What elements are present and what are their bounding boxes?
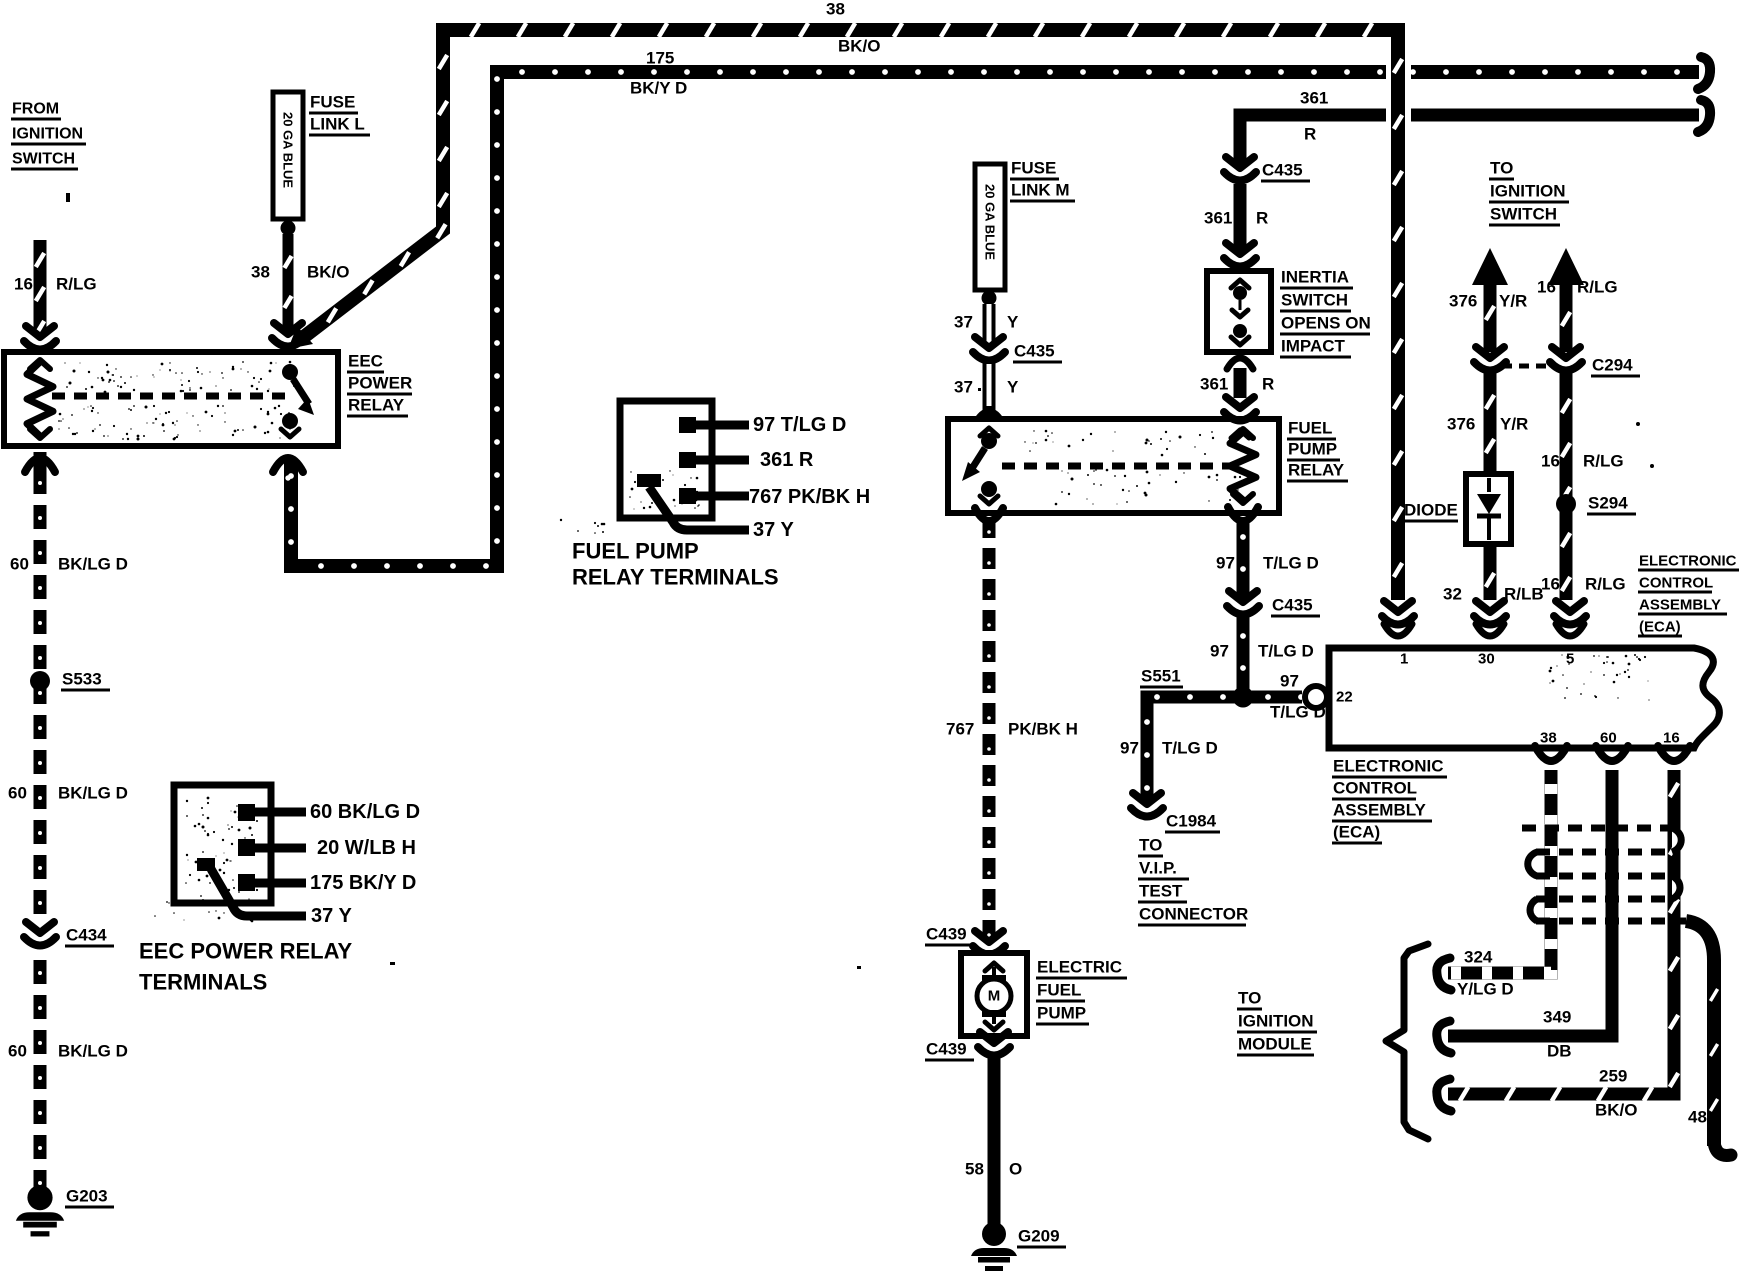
svg-text:37: 37 [954, 378, 973, 397]
svg-text:TEST: TEST [1139, 882, 1183, 901]
splice S533 [30, 671, 50, 691]
svg-text:20 GA BLUE: 20 GA BLUE [983, 184, 998, 260]
fuel pump relay dashed link [1002, 463, 1232, 470]
wire 361 R inertia to fuel pump relay [1227, 358, 1253, 369]
svg-text:PUMP: PUMP [1037, 1004, 1086, 1023]
fuse link L [273, 92, 303, 219]
svg-text:60: 60 [8, 784, 27, 803]
wire 97 to ECA pin 22 [1243, 691, 1302, 704]
connector C435 on 37 Y wire [973, 337, 1005, 361]
svg-text:TERMINALS: TERMINALS [139, 970, 267, 995]
svg-text:Y/LG D: Y/LG D [1457, 980, 1514, 999]
ECA box [1329, 648, 1719, 748]
connector C439 above pump [973, 931, 1005, 955]
wire 97 to S551 and VIP test connector [1147, 697, 1243, 800]
wire 376 Y/R with arrow to ignition switch [1472, 248, 1508, 285]
svg-text:Y: Y [1007, 313, 1019, 332]
wire 58 O to ground [988, 1056, 1001, 1224]
ECA bottom pin cups [1535, 746, 1567, 761]
svg-text:POWER: POWER [348, 374, 412, 393]
svg-text:IGNITION: IGNITION [12, 126, 83, 143]
svg-text:60 BK/LG D: 60 BK/LG D [310, 801, 420, 823]
svg-text:C439: C439 [926, 925, 967, 944]
svg-text:361 R: 361 R [760, 449, 814, 471]
fuel pump relay switch [980, 428, 998, 436]
svg-text:TO: TO [1139, 836, 1162, 855]
svg-text:CONNECTOR: CONNECTOR [1139, 905, 1248, 924]
svg-text:60: 60 [1600, 730, 1617, 747]
svg-text:FUEL: FUEL [1288, 419, 1332, 438]
svg-text:S551: S551 [1141, 667, 1181, 686]
svg-text:FUSE: FUSE [1011, 159, 1056, 178]
fuel pump relay coil [1230, 432, 1256, 500]
wire 16 R/LG with arrow to ignition switch [1548, 248, 1584, 285]
crossover hop arcs [1672, 828, 1681, 852]
connector C1984 [1131, 793, 1163, 817]
svg-text:R: R [1262, 375, 1274, 394]
svg-text:Y: Y [1007, 378, 1019, 397]
wire 361 R horizontal to ignition switch [1240, 115, 1699, 163]
FUEL PUMP RELAY TERMINALS box [620, 401, 712, 518]
svg-text:DB: DB [1547, 1042, 1572, 1061]
svg-text:C434: C434 [66, 926, 107, 945]
wire 767 PK/BK H dashed to fuel pump [975, 508, 1003, 521]
wire 16 R/LG to S294 [1560, 372, 1573, 600]
svg-text:97: 97 [1216, 554, 1235, 573]
terminal pins [238, 804, 255, 821]
svg-text:30: 30 [1478, 651, 1495, 668]
svg-text:FUEL: FUEL [1037, 981, 1081, 1000]
wire 349 end cap [1437, 1021, 1451, 1053]
svg-text:IGNITION: IGNITION [1490, 182, 1566, 201]
svg-text:BK/Y D: BK/Y D [630, 79, 687, 98]
wire 175 BK/Y D (dotted) EEC relay to top bus [291, 72, 1699, 566]
svg-text:361: 361 [1300, 89, 1328, 108]
svg-text:M: M [988, 988, 1001, 1005]
svg-text:(ECA): (ECA) [1333, 823, 1380, 842]
connector C439 below pump [978, 1032, 1010, 1056]
svg-text:LINK L: LINK L [310, 115, 365, 134]
wire 259 end cap [1437, 1079, 1451, 1111]
inertia switch wire 361 R from C435 [1224, 157, 1256, 181]
svg-text:37 Y: 37 Y [753, 519, 794, 541]
svg-text:BK/LG D: BK/LG D [58, 555, 128, 574]
fuse link M [975, 164, 1005, 290]
svg-text:C439: C439 [926, 1040, 967, 1059]
svg-text:S533: S533 [62, 670, 102, 689]
svg-text:BK/LG D: BK/LG D [58, 784, 128, 803]
svg-text:G203: G203 [66, 1187, 108, 1206]
svg-text:32: 32 [1443, 585, 1462, 604]
white break where wire 38 crosses 175 and 361 [1386, 52, 1411, 136]
svg-text:EEC POWER RELAY: EEC POWER RELAY [139, 939, 352, 964]
connector C294 right [1550, 347, 1582, 371]
wire 324 end cap [1437, 958, 1451, 990]
svg-text:C1984: C1984 [1166, 812, 1217, 831]
svg-text:16: 16 [1663, 730, 1680, 747]
svg-text:RELAY: RELAY [1288, 461, 1345, 480]
svg-text:BK/O: BK/O [838, 37, 881, 56]
svg-text:R/LG: R/LG [56, 275, 97, 294]
ground G209 [982, 1222, 1006, 1246]
svg-text:16: 16 [1541, 452, 1560, 471]
connector C435 on 97 wire [1227, 591, 1259, 615]
svg-text:(ECA): (ECA) [1639, 619, 1681, 636]
wire 48 to off page [1686, 921, 1714, 1146]
diode [1466, 474, 1511, 544]
splice junction on 97 wire [1233, 687, 1254, 708]
ground G203 [27, 1185, 52, 1210]
svg-text:T/LG D: T/LG D [1263, 554, 1319, 573]
svg-text:48: 48 [1688, 1108, 1707, 1127]
svg-text:22: 22 [1336, 689, 1353, 706]
svg-text:T/LG D: T/LG D [1162, 739, 1218, 758]
svg-text:R/LG: R/LG [1577, 278, 1618, 297]
svg-text:ELECTRONIC: ELECTRONIC [1333, 757, 1444, 776]
svg-text:CONTROL: CONTROL [1639, 575, 1713, 592]
wire 324 Y/LG D from ECA pin 38 [1448, 770, 1551, 973]
svg-text:BK/O: BK/O [307, 263, 350, 282]
svg-text:20 GA BLUE: 20 GA BLUE [281, 112, 296, 188]
svg-text:5: 5 [1566, 651, 1574, 668]
EEC power relay box [4, 352, 338, 446]
svg-text:EEC: EEC [348, 352, 383, 371]
svg-text:175: 175 [646, 49, 674, 68]
svg-text:DIODE: DIODE [1404, 501, 1458, 520]
wire 37 Y double-line from fuse link M [983, 304, 996, 346]
svg-text:SWITCH: SWITCH [1490, 205, 1557, 224]
svg-text:SWITCH: SWITCH [12, 151, 75, 168]
curly brace [1386, 944, 1428, 1139]
svg-text:ELECTRIC: ELECTRIC [1037, 958, 1122, 977]
svg-text:97: 97 [1210, 642, 1229, 661]
svg-text:20 W/LB H: 20 W/LB H [317, 837, 416, 859]
svg-text:IMPACT: IMPACT [1281, 337, 1346, 356]
svg-text:Y/R: Y/R [1500, 415, 1528, 434]
svg-text:RELAY: RELAY [348, 396, 405, 415]
svg-text:V.I.P.: V.I.P. [1139, 859, 1177, 878]
EEC relay bottom-left pin cup [25, 458, 55, 472]
wire 361 right end hook [1698, 100, 1710, 132]
connector C294 left [1474, 347, 1506, 371]
svg-text:R/LG: R/LG [1583, 452, 1624, 471]
crossover dashed lines to ignition module [1522, 825, 1668, 832]
svg-text:C294: C294 [1592, 356, 1633, 375]
EEC power relay terminals box [174, 785, 271, 903]
svg-text:SWITCH: SWITCH [1281, 291, 1348, 310]
wire 97 T/LG D dotted from fuel pump relay [1228, 507, 1258, 521]
svg-text:38: 38 [1540, 730, 1557, 747]
svg-text:37 Y: 37 Y [311, 905, 352, 927]
svg-text:C435: C435 [1262, 161, 1303, 180]
connector into ECA pin 1 [1382, 601, 1414, 625]
svg-text:97: 97 [1280, 672, 1299, 691]
svg-text:767: 767 [946, 720, 974, 739]
fuel pump relay box [948, 419, 1279, 513]
wire 38 BK/O main hatched run to ECA pin 1 [305, 30, 1398, 600]
svg-text:R/LG: R/LG [1585, 575, 1626, 594]
svg-text:60: 60 [8, 1042, 27, 1061]
svg-text:C435: C435 [1014, 342, 1055, 361]
svg-text:C435: C435 [1272, 596, 1313, 615]
svg-text:R: R [1256, 209, 1268, 228]
wire 32 R/LB diode to ECA pin 30 [1484, 544, 1497, 600]
svg-text:T/LG D: T/LG D [1258, 642, 1314, 661]
svg-text:FROM: FROM [12, 101, 59, 118]
svg-text:G209: G209 [1018, 1227, 1060, 1246]
svg-text:TO: TO [1490, 159, 1513, 178]
svg-text:1: 1 [1400, 651, 1408, 668]
svg-text:BK/LG D: BK/LG D [58, 1042, 128, 1061]
svg-text:259: 259 [1599, 1067, 1627, 1086]
svg-text:175 BK/Y D: 175 BK/Y D [310, 872, 416, 894]
svg-text:PK/BK H: PK/BK H [1008, 720, 1078, 739]
svg-text:97: 97 [1120, 739, 1139, 758]
connector C434 [24, 920, 56, 954]
svg-text:FUSE: FUSE [310, 93, 355, 112]
EEC relay coil [27, 362, 53, 436]
svg-text:361: 361 [1200, 375, 1228, 394]
svg-text:CONTROL: CONTROL [1333, 779, 1417, 798]
svg-text:37: 37 [954, 313, 973, 332]
svg-text:FUEL PUMP: FUEL PUMP [572, 539, 699, 564]
svg-text:16: 16 [1537, 278, 1556, 297]
svg-text:OPENS ON: OPENS ON [1281, 314, 1371, 333]
svg-text:60: 60 [10, 555, 29, 574]
svg-text:LINK M: LINK M [1011, 181, 1070, 200]
svg-text:S294: S294 [1588, 494, 1628, 513]
svg-text:16: 16 [14, 275, 33, 294]
ECA pin 22 ring [1305, 686, 1327, 708]
svg-text:ASSEMBLY: ASSEMBLY [1333, 801, 1427, 820]
wire 175 right end hook [1698, 57, 1710, 89]
wire 376 Y/R to diode [1484, 372, 1497, 474]
svg-text:38: 38 [251, 263, 270, 282]
svg-text:TO: TO [1238, 989, 1261, 1008]
terminal pins [679, 417, 696, 433]
wire 349 DB from ECA pin 60 [1448, 770, 1612, 1036]
svg-text:97 T/LG D: 97 T/LG D [753, 414, 846, 436]
svg-text:ELECTRONIC: ELECTRONIC [1639, 553, 1737, 570]
svg-text:376: 376 [1447, 415, 1475, 434]
svg-text:MODULE: MODULE [1238, 1035, 1312, 1054]
electric fuel pump [961, 953, 1027, 1036]
svg-text:RELAY TERMINALS: RELAY TERMINALS [572, 565, 779, 590]
svg-text:ASSEMBLY: ASSEMBLY [1639, 597, 1721, 614]
EEC relay switch [282, 364, 298, 380]
svg-text:58: 58 [965, 1160, 984, 1179]
svg-text:349: 349 [1543, 1008, 1571, 1027]
svg-text:R: R [1304, 125, 1316, 144]
svg-text:Y/R: Y/R [1499, 292, 1527, 311]
svg-text:INERTIA: INERTIA [1281, 268, 1349, 287]
svg-text:361: 361 [1204, 209, 1232, 228]
wire 60 BK/LG D dashed to G203 [34, 452, 47, 470]
svg-text:38: 38 [826, 0, 845, 19]
EEC relay bottom-right pin cup [273, 458, 303, 472]
splice S294 [1556, 494, 1576, 514]
wire 38 BK/O fuse link L to EEC power relay [283, 234, 294, 330]
EEC relay dashed link [52, 393, 288, 400]
wire 259 BK/O from ECA pin 16 [1448, 770, 1674, 1094]
svg-text:324: 324 [1464, 948, 1493, 967]
svg-text:PUMP: PUMP [1288, 440, 1337, 459]
svg-text:IGNITION: IGNITION [1238, 1012, 1314, 1031]
inertia switch box [1207, 271, 1271, 352]
svg-text:R/LB: R/LB [1504, 585, 1544, 604]
svg-text:767 PK/BK H: 767 PK/BK H [749, 486, 870, 508]
svg-text:16: 16 [1541, 575, 1560, 594]
svg-text:BK/O: BK/O [1595, 1101, 1638, 1120]
svg-text:O: O [1009, 1160, 1022, 1179]
wire 16 R/LG from ignition switch (hatched) [34, 240, 47, 336]
svg-text:376: 376 [1449, 292, 1477, 311]
